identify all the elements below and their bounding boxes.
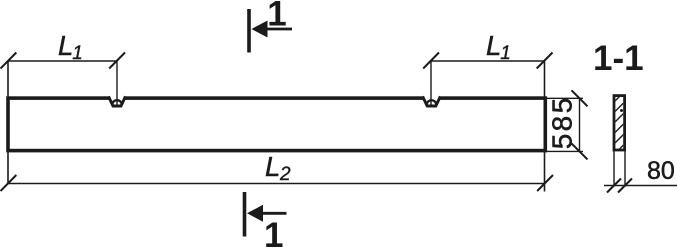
- svg-text:L: L: [58, 30, 73, 61]
- lifting loop 2: [427, 100, 437, 105]
- svg-text:1-1: 1-1: [593, 39, 644, 78]
- lifting loop 1: [112, 100, 122, 105]
- tick 80 right: [618, 179, 632, 193]
- section 1-1 outline: [614, 96, 625, 150]
- svg-text:585: 585: [547, 95, 578, 149]
- dimension line L1 right: [431, 60, 545, 62]
- dimension line L2: [8, 183, 545, 185]
- tick L1 right start: [423, 53, 439, 69]
- section marker top: arrow head: [252, 21, 268, 38]
- extension line notch 2: [430, 61, 432, 105]
- extension line 80 left: [613, 151, 615, 186]
- section marker bottom: arrow shaft: [253, 212, 287, 215]
- notch recess 2: [425, 95, 439, 101]
- svg-text:1: 1: [500, 43, 511, 64]
- tick 585 bottom: [572, 143, 588, 159]
- svg-text:1: 1: [72, 43, 83, 64]
- extension line notch 1: [116, 61, 118, 105]
- tick 80 left: [607, 179, 621, 193]
- tick L1 right end: [537, 53, 553, 69]
- section marker bottom: cut line: [243, 192, 247, 237]
- svg-text:2: 2: [279, 164, 291, 185]
- svg-text:1: 1: [267, 0, 286, 33]
- tick L1 left end: [109, 53, 125, 69]
- tick L2 end: [537, 175, 553, 191]
- extension line 80 right: [624, 151, 626, 186]
- svg-text:L: L: [265, 151, 280, 182]
- section 1-1 hatching: [608, 84, 632, 161]
- dimension line 80: [604, 185, 677, 187]
- svg-text:L: L: [486, 30, 501, 61]
- section marker top: cut line: [247, 9, 251, 53]
- section marker top: arrow shaft: [258, 28, 292, 31]
- dimension line 585: [579, 98, 581, 151]
- svg-text:1: 1: [264, 216, 283, 249]
- beam outline (side view): [8, 98, 545, 151]
- svg-text:80: 80: [647, 157, 675, 185]
- extension line left edge (x=8): [7, 61, 9, 184]
- dimension line L1 left: [8, 60, 117, 62]
- extension line 585 top: [546, 97, 583, 99]
- tick 585 top: [572, 90, 588, 106]
- tick L2 start: [1, 175, 17, 191]
- section marker bottom: arrow head: [247, 205, 263, 222]
- tick L1 left start: [1, 53, 17, 69]
- extension line right edge (x=544.5 above beam): [544, 61, 546, 98]
- extension line right edge (x=544.5 below beam): [544, 152, 546, 192]
- notch recess 1: [110, 95, 123, 101]
- extension line 585 bottom: [546, 150, 583, 152]
